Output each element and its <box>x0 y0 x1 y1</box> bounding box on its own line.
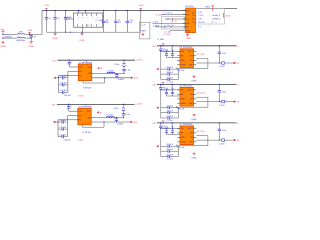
svg-text:C22u: C22u <box>222 91 226 93</box>
svg-text:U2 TU04: U2 TU04 <box>185 6 194 8</box>
svg-text:104: 104 <box>106 22 109 24</box>
svg-text:1: 1 <box>92 17 93 19</box>
svg-text:C22u: C22u <box>222 130 226 132</box>
svg-text:DGND5: DGND5 <box>118 79 124 81</box>
svg-text:SW: SW <box>88 117 91 119</box>
svg-text:C17 104: C17 104 <box>60 90 67 92</box>
svg-text:P_DN10: P_DN10 <box>65 17 72 19</box>
svg-text:D2 (+5V): D2 (+5V) <box>197 54 205 56</box>
svg-text:1: 1 <box>78 17 79 19</box>
svg-text:(+C5V): (+C5V) <box>136 104 143 106</box>
svg-text:D_5V0: D_5V0 <box>219 66 225 68</box>
svg-text:C15 104: C15 104 <box>166 144 172 146</box>
svg-text:R10 10K: R10 10K <box>178 70 186 72</box>
svg-text:C104: C104 <box>164 127 168 129</box>
svg-text:C 10u: C 10u <box>125 114 130 116</box>
svg-text:C_x 104: C_x 104 <box>166 81 172 83</box>
svg-text:VSNS: VSNS <box>181 65 187 67</box>
svg-text:DGND: DGND <box>192 119 198 121</box>
svg-text:DGND10: DGND10 <box>4 36 12 38</box>
svg-text:BOOT: BOOT <box>188 51 194 53</box>
svg-text:USB_D: USB_D <box>214 15 221 17</box>
svg-text:+24V: +24V <box>27 30 33 32</box>
svg-text:C6: C6 <box>33 36 35 38</box>
svg-text:BOOT: BOOT <box>188 128 194 130</box>
svg-text:S_GND: S_GND <box>164 34 171 36</box>
svg-text:C16 104: C16 104 <box>166 72 172 74</box>
svg-text:L1 10uH: L1 10uH <box>106 115 113 117</box>
svg-text:C15 104: C15 104 <box>59 120 66 122</box>
svg-text:C_LOAD: C_LOAD <box>96 19 104 22</box>
svg-text:SCL: SCL <box>186 19 189 21</box>
svg-text:C_SDA: C_SDA <box>153 24 160 27</box>
svg-text:D_5V0: D_5V0 <box>219 105 225 107</box>
svg-text:U5 MP1584EN: U5 MP1584EN <box>78 107 92 109</box>
svg-text:SW: SW <box>88 73 91 75</box>
svg-text:R10 10K: R10 10K <box>178 109 186 111</box>
svg-text:D2+: D2+ <box>192 19 195 21</box>
svg-text:VIN+: VIN+ <box>1 29 6 31</box>
svg-text:WR1: WR1 <box>142 31 146 33</box>
svg-text:1: 1 <box>87 17 88 19</box>
svg-text:U7 TPS5430D: U7 TPS5430D <box>180 124 193 126</box>
svg-text:C18 104: C18 104 <box>64 139 71 141</box>
svg-text:R_FB 10K: R_FB 10K <box>83 88 92 90</box>
svg-text:C15 104: C15 104 <box>166 67 172 69</box>
svg-text:(C5V): (C5V) <box>225 16 231 18</box>
svg-text:R10 10K: R10 10K <box>178 147 186 149</box>
svg-text:R_x: R_x <box>198 26 201 28</box>
svg-text:GND: GND <box>189 103 194 105</box>
svg-text:C_SCL: C_SCL <box>153 22 159 24</box>
svg-text:D2 (+5V): D2 (+5V) <box>197 131 205 133</box>
svg-text:C_x 104: C_x 104 <box>166 120 172 122</box>
svg-text:C 100u: C 100u <box>114 64 120 66</box>
svg-text:+24V: +24V <box>44 5 50 7</box>
svg-text:GND: GND <box>181 137 186 139</box>
svg-text:L1 10uH: L1 10uH <box>107 71 114 73</box>
svg-text:C15 104: C15 104 <box>60 76 67 78</box>
svg-text:S_GND: S_GND <box>158 39 165 41</box>
svg-text:L_C4 C5: L_C4 C5 <box>165 13 172 15</box>
svg-text:C18 104: C18 104 <box>64 95 71 97</box>
svg-text:104: 104 <box>118 22 121 24</box>
svg-text:7: 7 <box>209 26 210 28</box>
svg-text:+24V: +24V <box>138 5 144 7</box>
svg-text:C17 104: C17 104 <box>166 116 172 118</box>
svg-text:C16 104: C16 104 <box>59 127 66 129</box>
svg-text:PGND: PGND <box>28 46 34 48</box>
svg-text:PGND: PGND <box>52 38 58 40</box>
svg-text:C15 104: C15 104 <box>166 106 172 108</box>
svg-text:U6 TPS5430D: U6 TPS5430D <box>180 86 193 88</box>
svg-text:x: x <box>216 22 217 24</box>
svg-text:R_FB 10K: R_FB 10K <box>83 132 92 134</box>
svg-text:C104: C104 <box>164 50 168 52</box>
svg-text:GND: GND <box>186 38 191 40</box>
svg-text:C17 104: C17 104 <box>166 77 172 79</box>
svg-text:C 100u: C 100u <box>113 108 119 110</box>
svg-text:C1u: C1u <box>171 127 174 129</box>
svg-text:C16 104: C16 104 <box>60 83 67 85</box>
svg-text:C104: C104 <box>164 88 168 90</box>
svg-text:C1: C1 <box>48 18 50 20</box>
svg-text:DGND5: DGND5 <box>118 123 124 125</box>
svg-text:GND: GND <box>189 65 194 67</box>
svg-text:1 4.7K: 1 4.7K <box>198 15 204 17</box>
svg-text:DGND: DGND <box>78 95 84 97</box>
svg-text:GND: GND <box>189 142 194 144</box>
svg-text:VSNS: VSNS <box>181 142 187 144</box>
svg-text:DGND: DGND <box>192 80 198 82</box>
svg-text:(5V): (5V) <box>133 122 137 124</box>
svg-text:USB_D: USB_D <box>214 19 221 21</box>
svg-text:C1u: C1u <box>171 50 174 52</box>
svg-text:D1+: D1+ <box>192 12 195 14</box>
svg-text:C17 104: C17 104 <box>166 154 172 156</box>
svg-text:(+C24): (+C24) <box>156 15 163 17</box>
svg-text:BOOT: BOOT <box>188 90 194 92</box>
svg-text:D2 (+5V): D2 (+5V) <box>197 92 205 94</box>
svg-text:VSNS: VSNS <box>181 103 187 105</box>
svg-text:C 10u: C 10u <box>126 70 131 72</box>
svg-text:U3 MP1584EN: U3 MP1584EN <box>79 62 93 64</box>
svg-text:C2: C2 <box>57 18 59 20</box>
svg-text:DGND: DGND <box>78 140 84 142</box>
svg-text:GND: GND <box>181 60 186 62</box>
svg-text:(+C5V): (+C5V) <box>136 60 143 62</box>
svg-text:4x: 4x <box>175 21 177 23</box>
svg-text:DGND: DGND <box>192 157 198 159</box>
svg-text:PGND: PGND <box>79 40 85 42</box>
svg-text:VBUS: VBUS <box>205 6 211 8</box>
svg-text:C1u: C1u <box>171 88 174 90</box>
svg-text:R1 4.7K: R1 4.7K <box>198 22 205 24</box>
svg-text:C_x 104: C_x 104 <box>166 159 172 161</box>
svg-text:C16 104: C16 104 <box>166 111 172 113</box>
svg-text:(5V): (5V) <box>134 78 138 80</box>
svg-text:D_5V0: D_5V0 <box>219 143 225 145</box>
svg-text:1: 1 <box>83 17 84 19</box>
svg-text:C16 104: C16 104 <box>166 149 172 151</box>
svg-text:PGND: PGND <box>0 46 6 48</box>
svg-text:C17 104: C17 104 <box>59 134 66 136</box>
svg-text:104: 104 <box>129 22 132 24</box>
svg-text:C22u: C22u <box>222 53 226 55</box>
svg-text:ACM7060: ACM7060 <box>17 39 25 42</box>
svg-text:U4 TPS5430D: U4 TPS5430D <box>180 47 193 49</box>
svg-text:GND: GND <box>181 99 186 101</box>
